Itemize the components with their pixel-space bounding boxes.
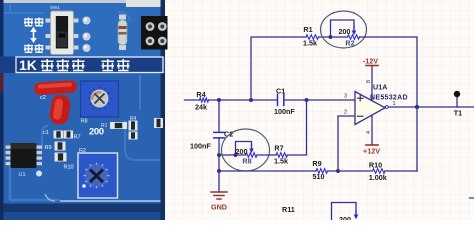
wire R2 to feedback corner, down right side — [360, 37, 418, 171]
potentiometer R2 (rheostat) — [329, 20, 360, 48]
svg-text:c1: c1 — [43, 130, 49, 136]
resistor R7 — [274, 144, 288, 166]
wire R7 up to pin3 node — [288, 100, 307, 155]
svg-text:R4: R4 — [196, 90, 205, 99]
wire R4 to C1 — [209, 99, 278, 101]
svg-text:R2: R2 — [79, 148, 86, 154]
svg-text:1.00k: 1.00k — [369, 173, 387, 182]
svg-text:510: 510 — [313, 172, 325, 181]
wire R9 line — [219, 170, 316, 172]
svg-text:NE5532AD: NE5532AD — [370, 95, 408, 102]
power +12V bottom — [363, 145, 380, 156]
svg-text:R7: R7 — [74, 135, 81, 141]
resistor R10 — [369, 161, 387, 183]
op-amp U1A — [344, 66, 408, 146]
wire stub at right edge — [470, 197, 474, 199]
svg-text:3: 3 — [344, 94, 347, 100]
svg-text:C2: C2 — [224, 130, 233, 139]
capacitor C1 — [274, 87, 295, 117]
svg-text:1: 1 — [393, 101, 396, 107]
wire feedback up — [251, 37, 306, 100]
wire R10 to right vertical — [385, 170, 417, 172]
wire R8 to R7 — [257, 154, 276, 156]
svg-text:200: 200 — [339, 215, 351, 220]
svg-text:SW1: SW1 — [50, 5, 60, 10]
svg-text:100nF: 100nF — [190, 142, 211, 151]
power -12V top — [363, 57, 378, 66]
ground — [211, 192, 227, 212]
node junction pin2/R9 — [336, 169, 340, 173]
wire input to R4 — [185, 99, 200, 101]
svg-text:-12V: -12V — [363, 57, 378, 66]
svg-text:R1: R1 — [303, 25, 312, 34]
node junction main/feedback — [249, 98, 253, 102]
highlight ellipse around R2 — [321, 11, 367, 48]
svg-text:R9: R9 — [312, 159, 321, 168]
svg-text:24k: 24k — [195, 103, 207, 112]
wire R8 line left — [219, 154, 246, 156]
svg-text:R8: R8 — [81, 119, 88, 125]
resistor R9 — [312, 159, 327, 181]
highlight ellipse around R8 — [222, 129, 270, 171]
wire R1 to R2 — [319, 36, 348, 38]
svg-text:1.5k: 1.5k — [303, 39, 317, 48]
resistor R4 — [195, 90, 209, 112]
potentiometer R8 (rheostat) — [234, 142, 258, 166]
svg-text:1K: 1K — [19, 57, 37, 73]
node junction main/C2 branch — [217, 98, 221, 102]
svg-text:R11: R11 — [282, 205, 295, 214]
svg-text:U1: U1 — [19, 172, 26, 178]
wire R9 to R10 — [328, 170, 373, 172]
wire C2 branch vertical — [218, 100, 220, 132]
svg-text:200: 200 — [339, 27, 351, 36]
svg-text:U1A: U1A — [373, 83, 387, 92]
node junction C2/R8 line — [217, 153, 221, 157]
svg-text:2: 2 — [344, 110, 347, 116]
svg-text:R1: R1 — [101, 123, 108, 129]
wire pin2 branch — [338, 116, 355, 171]
svg-text:R7: R7 — [274, 144, 283, 153]
svg-text:R9: R9 — [45, 145, 52, 151]
svg-text:100nF: 100nF — [274, 107, 295, 116]
PCB photograph (left panel, decorative) — [0, 0, 168, 220]
terminal T1 — [454, 91, 462, 118]
node junction C2/R9 line — [217, 169, 221, 173]
svg-text:R8: R8 — [242, 157, 251, 166]
svg-text:+12V: +12V — [363, 147, 380, 156]
svg-text:GND: GND — [211, 203, 227, 212]
svg-text:c2: c2 — [40, 95, 46, 101]
svg-text:R10: R10 — [369, 161, 382, 170]
node junction output/feedback — [415, 105, 419, 109]
resistor R1 — [303, 25, 319, 48]
wire op-amp output — [385, 106, 474, 108]
svg-text:1.5k: 1.5k — [274, 157, 288, 166]
capacitor C2 — [190, 130, 233, 151]
node junction pin3/R7 branch — [305, 98, 309, 102]
svg-text:200: 200 — [236, 147, 248, 156]
svg-text:T1: T1 — [454, 109, 462, 118]
svg-text:R10: R10 — [64, 165, 74, 171]
svg-text:8: 8 — [366, 80, 372, 83]
svg-text:C1: C1 — [276, 87, 285, 96]
wire C1 to op-amp pin3 — [284, 99, 355, 101]
svg-text:4: 4 — [366, 131, 372, 134]
resistor R11 (partially visible) — [282, 203, 358, 225]
